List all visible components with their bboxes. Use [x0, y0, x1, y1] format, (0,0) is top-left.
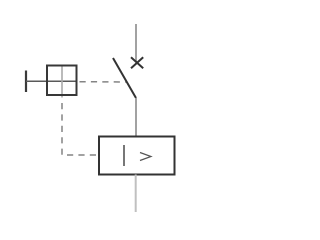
X fixed contact of breaker [131, 57, 143, 68]
I bar of relay [123, 145, 125, 166]
bottom conductor [135, 175, 137, 213]
terminal tick [25, 71, 27, 93]
dashed mechanical link square to relay box [62, 103, 99, 155]
breaker blade [113, 58, 136, 98]
motor operator square [47, 66, 77, 96]
overcurrent relay box [99, 137, 175, 175]
dashed mechanical link square to breaker blade [80, 81, 128, 83]
greater-than symbol of relay [140, 153, 151, 161]
wire terminal to motor-operator square [26, 80, 77, 82]
middle conductor [135, 98, 137, 137]
top conductor [135, 24, 137, 62]
inner vertical shaft of square [61, 66, 63, 98]
